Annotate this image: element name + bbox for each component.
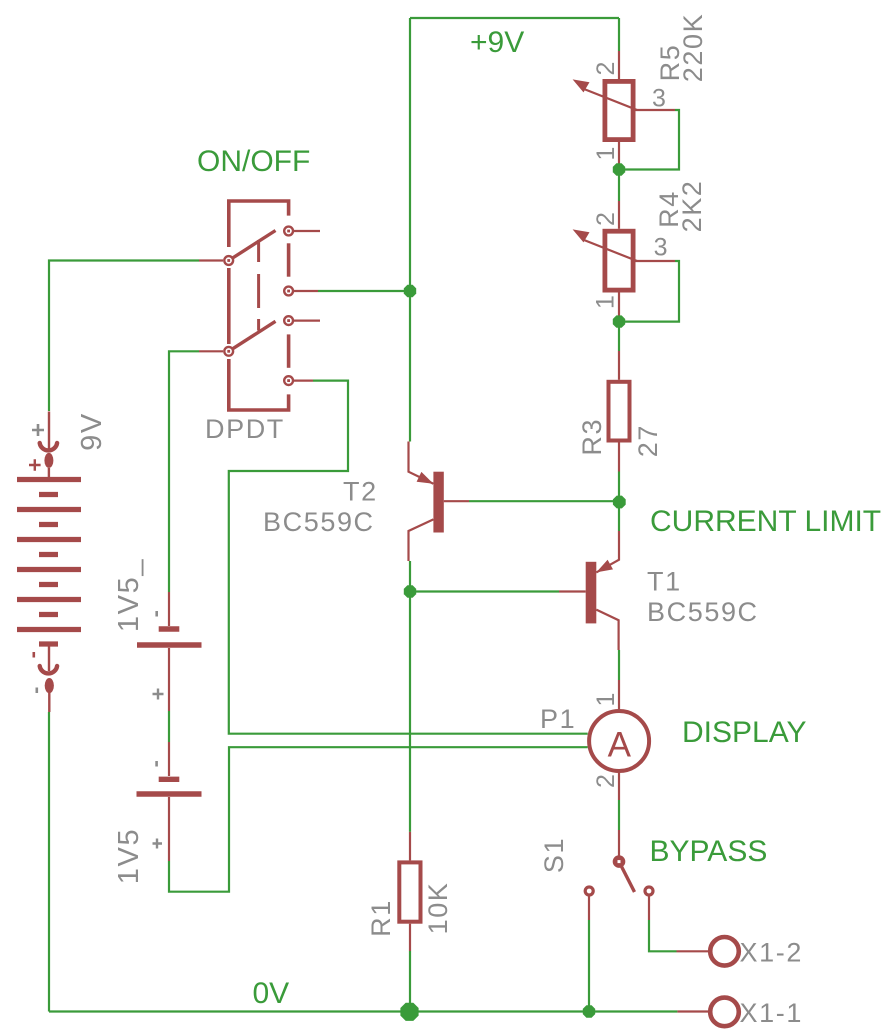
wire battery 9V minus down <box>48 712 50 1012</box>
pin DPDT throw 1b <box>294 290 318 292</box>
svg-text:3: 3 <box>652 85 666 113</box>
wire switch pole 2 to 1V5_ top <box>169 351 199 592</box>
wire T2 collector to R1 vertical <box>409 561 411 832</box>
pin T2 base <box>444 500 469 502</box>
pin T1 base <box>559 590 586 592</box>
pin 1V5 minus <box>168 742 170 776</box>
svg-text:P1: P1 <box>540 704 576 734</box>
battery 9V plate long 4 <box>17 567 81 572</box>
wire +9V corner down to R5 pin 2 <box>618 18 620 51</box>
transistor T1 emitter arrow <box>596 560 613 573</box>
pin R3 bottom <box>618 443 620 472</box>
battery 9V plate short 2 <box>39 522 58 527</box>
wire P1 pin 2 to S1 <box>618 800 620 830</box>
transistor T1 base bar <box>586 562 597 624</box>
wire S1 right contact to X1-2 <box>649 920 677 951</box>
potentiometer R4 wiper line <box>584 240 637 261</box>
wire battery 9V plus to switch pole 1 <box>49 261 199 412</box>
resistor R3 body <box>609 382 630 441</box>
svg-text:2: 2 <box>592 212 620 226</box>
battery 9V top clip pin <box>44 453 53 468</box>
svg-text:BC559C: BC559C <box>647 597 759 627</box>
switch DPDT contact throw 1b <box>284 287 293 296</box>
pin S1 right <box>648 896 650 921</box>
pin DPDT pole 1 <box>199 259 223 261</box>
junction node 0V R1 <box>400 1003 418 1021</box>
wire T1 base to T2 collector node <box>410 590 559 592</box>
battery 9V gray minus <box>35 688 38 694</box>
potentiometer R5 body <box>605 81 633 139</box>
battery 9V top clip arc <box>40 443 57 450</box>
svg-text:S1: S1 <box>539 837 569 873</box>
svg-text:DPDT: DPDT <box>205 414 285 444</box>
battery 9V plate long 1 <box>17 477 81 482</box>
svg-text:CURRENT LIMIT: CURRENT LIMIT <box>650 505 881 538</box>
svg-text:3: 3 <box>654 234 668 262</box>
battery 9V red plus <box>29 459 41 471</box>
connector X1-2 circle <box>710 937 739 966</box>
pin T1 collector <box>596 610 618 650</box>
pin X1-1 <box>677 1010 710 1012</box>
wire between 1V5 cells <box>168 711 170 742</box>
battery 9V plate short 1 <box>39 492 58 497</box>
pin T2 emitter <box>409 442 434 484</box>
switch DPDT bracket left middle <box>227 268 231 344</box>
svg-text:R3: R3 <box>577 418 607 456</box>
transistor T2 base bar <box>433 472 443 533</box>
pin R3 top <box>618 351 620 380</box>
svg-text:220K: 220K <box>678 13 708 82</box>
svg-text:0V: 0V <box>253 977 290 1010</box>
svg-text:BYPASS: BYPASS <box>650 835 768 868</box>
wire R3 bottom to current limit node <box>618 472 620 502</box>
battery 9V plate short 3 <box>39 552 58 557</box>
pin DPDT throw 2b <box>294 380 313 382</box>
battery 1V5_ short plate <box>159 626 180 631</box>
wire S1 left contact to 0V <box>588 920 590 1012</box>
svg-text:A: A <box>608 726 632 765</box>
wire +9V top horizontal <box>410 17 619 19</box>
potentiometer R5 wiper line <box>584 89 637 110</box>
pin R4.3 <box>636 260 676 262</box>
switch S1 arm <box>622 867 635 893</box>
switch DPDT arm 2 <box>229 321 276 351</box>
wire 1V5 plus to P1 lower sense <box>169 747 588 892</box>
svg-text:DISPLAY: DISPLAY <box>682 716 807 749</box>
battery 9V plate short 4 <box>39 582 58 587</box>
switch S1 top contact <box>614 857 623 866</box>
svg-text:1V5_: 1V5_ <box>113 558 145 632</box>
wire switch throw 1b to +9V node <box>318 290 410 292</box>
pin R5.3 <box>636 109 676 111</box>
junction node R4 pin1 <box>613 315 625 327</box>
svg-text:9V: 9V <box>76 412 108 451</box>
connector X1-1 circle <box>710 998 739 1027</box>
svg-text:10K: 10K <box>423 882 453 935</box>
pin battery 9V plus <box>48 412 50 479</box>
wire T2 base to current limit node <box>469 500 619 502</box>
svg-text:2K2: 2K2 <box>677 180 707 233</box>
battery 9V plate long 2 <box>17 507 81 512</box>
pin P1.2 <box>618 773 620 800</box>
switch DPDT arm 1 <box>229 231 276 261</box>
switch DPDT bracket left-bottom <box>229 359 289 410</box>
battery 9V red minus <box>32 652 35 658</box>
switch S1 left contact <box>585 887 593 895</box>
pin 1V5_ minus <box>168 592 170 626</box>
svg-text:27: 27 <box>633 424 663 457</box>
switch DPDT right dash 1 <box>287 243 291 276</box>
svg-text:ON/OFF: ON/OFF <box>197 145 310 178</box>
svg-text:T2: T2 <box>343 477 378 507</box>
battery 1V5 long plate <box>137 791 202 796</box>
wire switch throw 2b to P1 upper sense <box>229 381 588 734</box>
wire R4 pin1 node down to R3 <box>618 322 620 351</box>
resistor R1 body <box>399 862 420 921</box>
svg-text:X1-1: X1-1 <box>740 998 803 1028</box>
pin R4.2 <box>618 201 620 229</box>
switch S1 right contact <box>645 887 653 895</box>
wire 0V rail <box>49 1010 677 1012</box>
battery 1V5_ gray minus <box>155 611 158 617</box>
potentiometer R4 wiper arrow <box>573 229 590 242</box>
svg-text:2: 2 <box>592 62 620 76</box>
pin DPDT pole 2 <box>199 350 223 352</box>
pin S1 left <box>588 896 590 921</box>
switch DPDT bracket left-top <box>229 201 289 247</box>
battery 9V plate short 6 (minus terminal) <box>39 641 58 646</box>
pin DPDT throw 1a <box>294 230 320 232</box>
transistor T2 emitter arrow <box>417 472 434 484</box>
svg-text:BC559C: BC559C <box>263 507 375 537</box>
pin battery 9V minus <box>48 646 51 712</box>
wire R5 pin1 node down <box>618 170 620 202</box>
battery 9V gray plus <box>32 424 44 436</box>
pin 1V5_ plus <box>168 648 170 711</box>
wire R5 pin 3 loop <box>619 110 679 170</box>
switch DPDT coupling dash 3 <box>257 319 260 331</box>
svg-text:+9V: +9V <box>470 26 524 59</box>
pin T1 emitter <box>596 531 619 572</box>
junction node T2 collector <box>404 585 416 597</box>
junction node 0V S1 <box>583 1005 595 1017</box>
battery 1V5_ long plate <box>137 642 202 647</box>
pin DPDT throw 2a <box>294 320 320 322</box>
pin X1-2 <box>677 950 711 952</box>
battery 1V5 short plate <box>159 777 180 782</box>
wire current limit node to T1 emitter <box>618 501 620 531</box>
potentiometer R4 body <box>605 231 633 290</box>
potentiometer R5 wiper arrow <box>573 79 590 92</box>
battery 9V plate short 5 <box>39 612 58 617</box>
wire R1 bottom to 0V <box>409 951 411 1012</box>
wire +9V main vertical <box>409 18 411 442</box>
svg-text:2: 2 <box>592 774 620 788</box>
wire R4 pin 3 loop <box>619 261 679 322</box>
pin R5.2 <box>618 51 620 79</box>
switch DPDT contact throw 2b <box>284 376 293 385</box>
pin R4.1 <box>618 293 620 317</box>
pin 1V5 plus <box>168 797 170 861</box>
svg-text:1: 1 <box>592 147 620 161</box>
switch DPDT coupling dash 2 <box>257 274 260 308</box>
battery 9V plate long 5 <box>17 597 81 602</box>
switch DPDT coupling dash 1 <box>257 240 260 262</box>
svg-text:T1: T1 <box>647 567 682 597</box>
junction node R5 pin1 <box>613 163 625 175</box>
battery 9V plate long 3 <box>17 537 81 542</box>
switch DPDT contact throw 1a <box>284 227 293 236</box>
wire T1 collector to P1 pin 1 <box>618 650 620 680</box>
battery 1V5 gray minus <box>155 761 158 767</box>
svg-text:1: 1 <box>592 693 620 707</box>
meter P1 body circle <box>589 711 649 771</box>
svg-text:R1: R1 <box>366 899 396 937</box>
battery 1V5_ gray plus <box>153 689 164 700</box>
junction node current limit <box>613 496 626 509</box>
switch DPDT contact pole 2 <box>224 347 233 356</box>
svg-text:X1-2: X1-2 <box>740 938 803 968</box>
battery 9V plate long 6 <box>17 627 81 632</box>
pin R1 bottom <box>409 924 411 951</box>
junction node throw1b/+9V <box>404 285 416 297</box>
battery 1V5 gray plus <box>153 839 163 849</box>
battery 9V bottom clip arc <box>40 666 57 673</box>
pin S1 top <box>618 830 620 857</box>
pin R1 top <box>409 832 411 861</box>
pin P1.1 <box>618 680 620 709</box>
pin R5.1 <box>618 142 620 165</box>
svg-text:1V5: 1V5 <box>113 828 145 884</box>
switch DPDT contact throw 2a <box>284 316 293 325</box>
svg-text:1: 1 <box>592 295 620 309</box>
switch DPDT right dash 2 <box>287 334 291 367</box>
battery 9V bottom clip pin <box>45 678 54 693</box>
switch DPDT contact pole 1 <box>224 256 233 265</box>
pin T2 collector <box>409 519 434 561</box>
